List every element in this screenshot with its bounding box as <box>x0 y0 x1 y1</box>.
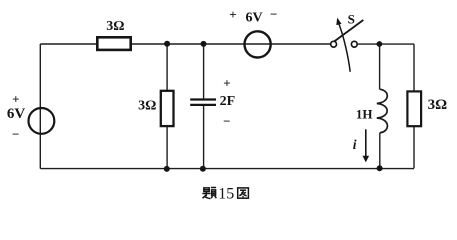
svg-text:3Ω: 3Ω <box>106 19 124 34</box>
svg-text:2F: 2F <box>220 94 236 109</box>
svg-text:−: − <box>223 114 230 129</box>
svg-text:S: S <box>348 11 355 26</box>
svg-text:−: − <box>270 7 277 22</box>
svg-text:+: + <box>12 91 19 106</box>
svg-text:−: − <box>12 127 19 142</box>
svg-text:+: + <box>223 75 230 90</box>
svg-text:6V: 6V <box>7 106 26 122</box>
svg-text:3Ω: 3Ω <box>428 97 448 113</box>
svg-text:3Ω: 3Ω <box>138 99 156 114</box>
svg-text:1H: 1H <box>356 107 373 122</box>
svg-text:+: + <box>229 7 236 22</box>
svg-text:i: i <box>353 137 357 152</box>
svg-text:6V: 6V <box>245 11 262 26</box>
svg-text:15: 15 <box>218 186 234 203</box>
